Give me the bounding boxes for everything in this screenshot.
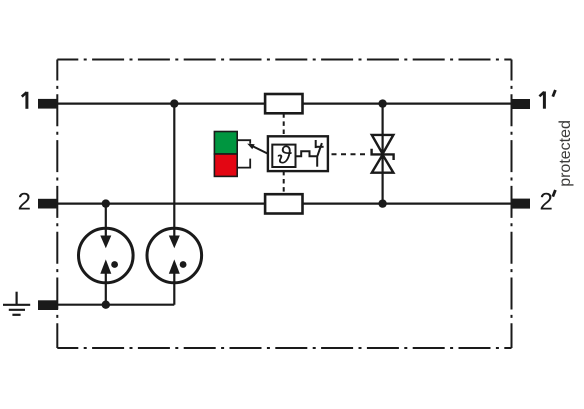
status indicator red field	[214, 154, 237, 176]
wire line 1 (terminal 1 to 1')	[57, 102, 512, 104]
terminal 1'	[512, 99, 531, 109]
junction line2/GDT1	[102, 199, 110, 207]
thermal element inner box	[272, 145, 295, 167]
wire GDT2 branch (line 1 through line 2 to ground bus)	[173, 104, 175, 305]
thermal disconnector box	[268, 136, 328, 171]
status indicator green field	[214, 132, 237, 155]
wire suppressor branch	[382, 104, 384, 204]
gas discharge tube 1	[79, 228, 134, 283]
suppressor zener bar	[372, 149, 394, 160]
wire GDT1 branch (line 2 to ground bus)	[105, 204, 107, 305]
suppressor diode (bidirectional)	[372, 135, 394, 173]
resistor R2 (line 2 decoupling impedance)	[265, 194, 302, 213]
svg-text:protected: protected	[557, 120, 574, 187]
junction line2/suppressor	[378, 199, 386, 207]
junction line1/GDT2	[170, 99, 178, 107]
terminal 2'	[512, 199, 531, 209]
dashed control link R1 to thermal box	[283, 113, 285, 136]
label 1	[22, 92, 27, 109]
ground terminal	[38, 300, 58, 310]
label 1'	[539, 90, 555, 109]
resistor R1 (line 1 decoupling impedance)	[265, 94, 302, 113]
ground symbol	[3, 292, 30, 315]
indicator contact red	[237, 159, 250, 168]
indicator contact green	[237, 140, 250, 144]
gas discharge tube 2	[147, 228, 202, 283]
enclosure dash-dot border	[57, 60, 511, 349]
junction line1/suppressor	[378, 99, 386, 107]
wire ground bus	[57, 304, 174, 306]
terminal 2	[38, 199, 58, 209]
indicator lever with arrowhead	[247, 144, 268, 154]
step waveform link	[296, 151, 317, 156]
svg-text:2: 2	[540, 188, 553, 215]
dashed control link thermal box to suppressor	[332, 153, 367, 155]
disconnect switch inside thermal box	[315, 140, 324, 167]
terminal 1	[38, 99, 58, 109]
junction ground/GDT1	[102, 301, 110, 309]
svg-text:ϑ: ϑ	[277, 142, 292, 170]
dashed control link thermal box to R2	[283, 171, 285, 194]
wire line 2 (terminal 2 to 2')	[57, 203, 512, 205]
svg-text:2: 2	[18, 188, 31, 215]
